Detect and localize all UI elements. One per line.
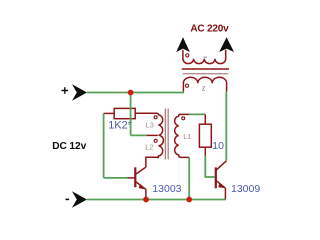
DC input arrow minus [72, 191, 87, 208]
resistor R1 1K2 body [114, 108, 135, 118]
resistor R2 10 bottom lead [204, 147, 206, 155]
wire - rail bottom [87, 199, 226, 201]
junction dot L1 rail [186, 197, 192, 203]
L1 polarity dot [182, 117, 185, 120]
svg-text:10: 10 [212, 140, 224, 152]
resistor R1 right lead to L3 [135, 112, 157, 114]
junction dot Q1 emitter rail [143, 197, 149, 203]
svg-text:L2: L2 [145, 143, 153, 152]
resistor R2 10 body [199, 124, 211, 147]
T1 core line light [183, 73, 229, 75]
wire right side vertical [225, 92, 227, 161]
output arrow left [176, 37, 190, 52]
T2 winding L3 and L2 stack [157, 113, 163, 157]
resistor R1 left lead [104, 112, 115, 114]
svg-text:DC 12v: DC 12v [52, 141, 86, 152]
T1 primary polarity dot [185, 84, 188, 87]
transformer T1 secondary winding [183, 50, 226, 64]
wire L2 bottom to Q1 collector [146, 157, 158, 167]
resistor R2 10 top lead [204, 114, 206, 124]
DC input arrow plus [72, 84, 87, 101]
wire tap to L2 [131, 134, 147, 136]
svg-text:L3: L3 [146, 121, 154, 130]
T2 core line left [164, 109, 166, 160]
T2 core line right [167, 109, 169, 160]
transistor Q1 13003 [135, 167, 146, 198]
wire resistor 10 to Q2 base [205, 156, 214, 178]
plus sign [62, 87, 69, 94]
minus sign [66, 198, 70, 200]
wire left branch vertical [103, 113, 105, 177]
T1 core line dark [182, 68, 229, 70]
junction dot top rail [128, 90, 134, 96]
svg-text:13003: 13003 [152, 183, 181, 195]
wire L1 bottom to rail [188, 157, 190, 199]
L3 polarity dot [154, 116, 157, 119]
svg-text:AC 220v: AC 220v [190, 24, 229, 35]
Q1 base pin stub [128, 177, 135, 179]
svg-text:13009: 13009 [231, 183, 260, 195]
T1 secondary polarity dot [186, 54, 189, 57]
wire Q1 base horizontal [104, 177, 128, 179]
svg-text:z: z [202, 83, 206, 92]
transformer T1 primary winding [183, 77, 226, 92]
wire + rail top [87, 92, 184, 94]
svg-text:L1: L1 [183, 132, 191, 141]
T2 winding L1 [175, 114, 190, 157]
wire L1 top to resistor 10 [189, 113, 205, 115]
L2 polarity dot [154, 139, 157, 142]
T1 secondary tiny mark [204, 56, 207, 58]
L2 tap pin stub [147, 134, 158, 136]
output arrow right [219, 37, 234, 52]
svg-text:1K2*: 1K2* [108, 120, 133, 132]
wire from junction down [130, 93, 132, 136]
transistor Q2 13009 [216, 161, 227, 200]
